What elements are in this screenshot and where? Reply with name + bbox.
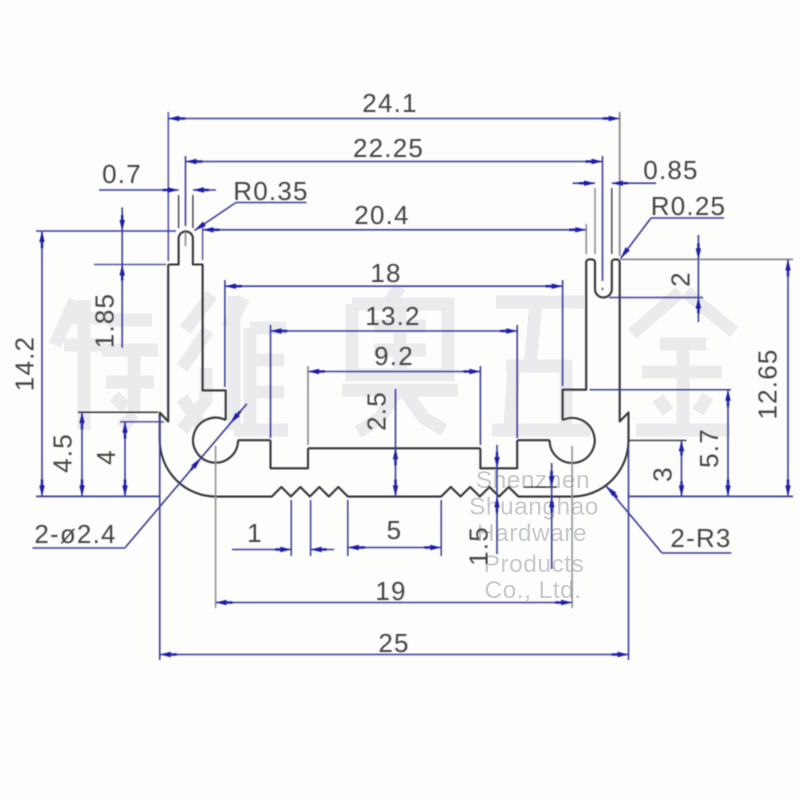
svg-text:9.2: 9.2 [374, 341, 414, 371]
right wall and top slot [563, 259, 629, 440]
left R3 corner [160, 440, 216, 496]
ext 24.1 right [619, 112, 621, 256]
dim 24.1 [168, 118, 619, 120]
ext 5.7 top [590, 389, 731, 391]
svg-text:R0.25: R0.25 [651, 191, 726, 221]
svg-text:0.85: 0.85 [643, 155, 698, 185]
svg-text:14.2: 14.2 [9, 336, 39, 391]
center platform [308, 447, 480, 449]
svg-text:5: 5 [387, 515, 403, 545]
svg-text:2-R3: 2-R3 [670, 523, 731, 553]
left shelf [238, 439, 270, 441]
svg-text:2: 2 [666, 271, 696, 287]
dim 5.7 [727, 390, 729, 497]
svg-text:24.1: 24.1 [362, 88, 417, 118]
ext 14.2/1.85 top [36, 230, 176, 232]
svg-text:25: 25 [378, 628, 409, 658]
svg-text:0.7: 0.7 [102, 159, 142, 189]
dim 18 [225, 285, 563, 287]
ext 1 left [290, 500, 292, 556]
ext bottom left [36, 495, 160, 497]
svg-text:2.5: 2.5 [362, 391, 392, 431]
center line left boss [215, 446, 217, 608]
ext 0.85 right [611, 188, 613, 254]
dim 9.2 [308, 371, 480, 373]
dim 1.5 [496, 445, 498, 554]
svg-text:4.5: 4.5 [48, 433, 78, 473]
center dash tooth [185, 232, 187, 246]
ext 1 right [310, 500, 312, 556]
ext 20.4 left [202, 224, 204, 260]
dim 0.85 [573, 182, 596, 184]
svg-text:18: 18 [370, 258, 401, 288]
ext 18 right [562, 280, 564, 386]
watermark char wu [492, 302, 590, 430]
ext 25 left [159, 417, 161, 660]
dim 25 [160, 654, 629, 656]
ext 0.85 left [594, 188, 596, 254]
svg-text:13.2: 13.2 [365, 301, 420, 331]
ext serration top [524, 486, 557, 488]
right R3 corner [572, 440, 628, 496]
dim 4.5 [81, 412, 83, 496]
left base edge and outer wall [160, 265, 168, 441]
watermark char ao [352, 287, 448, 375]
svg-text:3: 3 [648, 466, 678, 482]
svg-text:1.85: 1.85 [90, 293, 120, 348]
center line right boss [571, 446, 573, 608]
ext 2 bottom [609, 297, 703, 299]
ext 25 right [628, 446, 630, 660]
dim 22.25 [186, 161, 603, 163]
ext 9.2 left [307, 366, 309, 445]
left screw boss circle (2-ø2.4) [193, 418, 238, 463]
ext 5 right [440, 500, 442, 556]
dim 14.2 [41, 231, 43, 496]
svg-text:12.65: 12.65 [753, 348, 783, 419]
left rib [271, 440, 309, 468]
dim 19 [216, 602, 572, 604]
svg-text:20.4: 20.4 [354, 200, 409, 230]
ext 4 top [120, 421, 164, 423]
svg-text:19: 19 [375, 576, 406, 606]
right rib [480, 440, 517, 468]
dim serration height [551, 463, 553, 569]
leader 2-R3 [606, 486, 662, 553]
leader R0.25 [621, 218, 652, 259]
ext 0.7 left [178, 195, 180, 228]
profile outer outline [168, 231, 226, 420]
svg-text:1.5: 1.5 [464, 526, 494, 566]
right shelf [517, 439, 549, 441]
dim 20.4 [203, 229, 587, 231]
ext 9.2 right [479, 366, 481, 445]
bottom edge with serrations [216, 487, 572, 497]
ext 18 left [224, 280, 226, 387]
leader 2-ø2.4 [33, 547, 125, 549]
svg-text:4: 4 [91, 449, 121, 465]
ext bottom right [629, 495, 794, 497]
dim 2 [697, 235, 699, 322]
dim 2.5 [395, 389, 397, 496]
dim 1 [232, 549, 291, 551]
dim 1.85 [121, 207, 123, 347]
ext 3 top [628, 439, 687, 441]
dim 12.65 [787, 259, 789, 496]
dim 3 [681, 440, 683, 496]
ext 22.25 right [602, 156, 604, 281]
ext 13.2 left [270, 325, 272, 438]
svg-text:5.7: 5.7 [694, 428, 724, 468]
watermark char te [55, 300, 108, 430]
ext 22.25 left [185, 156, 187, 226]
ext 0.7 right [192, 195, 194, 228]
center dash slot [602, 283, 604, 285]
ext 1.85 bottom [94, 264, 166, 266]
dim 13.2 [271, 330, 518, 332]
ext 5 left [347, 500, 349, 556]
ext 4.5 top [78, 411, 158, 413]
svg-text:Products: Products [484, 551, 585, 578]
dim 4 [124, 422, 126, 497]
svg-text:2-ø2.4: 2-ø2.4 [34, 519, 116, 549]
ext 13.2 right [516, 325, 518, 438]
right screw boss circle [550, 418, 595, 463]
svg-text:1: 1 [247, 518, 263, 548]
watermark char wei [182, 295, 212, 430]
dim 0.7 [99, 189, 179, 191]
svg-text:R0.35: R0.35 [233, 176, 308, 206]
watermark char jin [632, 292, 734, 430]
ext 20.4 right [585, 224, 587, 254]
leader R0.35 [195, 203, 237, 231]
ext 24.1 left [167, 112, 169, 261]
ext 2 top / 12.65 top [621, 258, 794, 260]
svg-text:Co., Ltd.: Co., Ltd. [484, 577, 581, 604]
svg-text:22.25: 22.25 [353, 133, 424, 163]
dim 5 [348, 547, 441, 549]
